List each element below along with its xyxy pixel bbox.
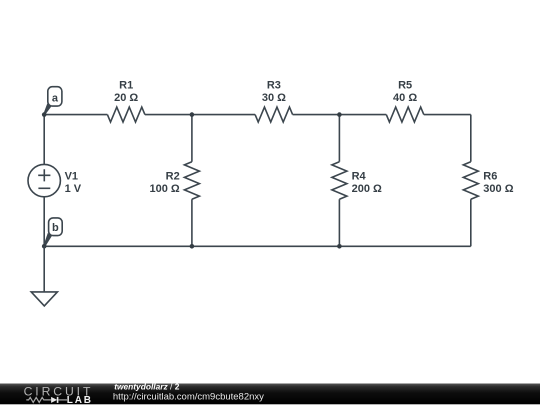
svg-text:R4: R4 <box>352 171 367 183</box>
wire R6 bottom lead <box>470 199 472 246</box>
resistor R6 <box>463 162 513 200</box>
svg-text:R5: R5 <box>398 79 412 91</box>
wire bottom rail <box>44 245 471 247</box>
junction dot node b <box>42 244 47 249</box>
svg-text:R6: R6 <box>483 171 497 183</box>
svg-text:b: b <box>52 222 59 234</box>
node a <box>43 87 62 116</box>
svg-text:R1: R1 <box>119 79 133 91</box>
svg-text:200 Ω: 200 Ω <box>352 183 382 195</box>
resistor R3 <box>255 79 293 122</box>
junction dot node a <box>42 112 47 117</box>
wire left rail bottom: V1 to node b <box>43 197 45 247</box>
wire R4 bottom lead <box>338 199 340 246</box>
svg-text:100 Ω: 100 Ω <box>149 183 179 195</box>
junction dot R3-R4-R5 <box>337 112 342 117</box>
junction dot bottom R4 <box>337 244 342 249</box>
resistor R2 <box>149 162 199 200</box>
footer url <box>113 391 264 402</box>
wire R2 top lead <box>191 115 193 162</box>
CircuitLab logo LAB <box>67 395 93 405</box>
resistor R5 <box>386 79 424 122</box>
CircuitLab logo diode <box>51 397 67 403</box>
wire R4 top lead <box>338 115 340 162</box>
wire R5 to top-right corner <box>424 114 471 116</box>
svg-text:R2: R2 <box>166 171 180 183</box>
voltage source V1 <box>28 164 82 196</box>
node b <box>43 218 62 247</box>
footer title twentydollarz / 2 <box>114 382 180 392</box>
resistor R1 <box>107 79 144 122</box>
svg-text:LAB: LAB <box>67 395 93 405</box>
svg-text:1 V: 1 V <box>65 183 82 195</box>
wire R2 bottom lead <box>191 199 193 246</box>
wire R3 to node between R3/R5 <box>293 114 340 116</box>
svg-text:twentydollarz / 2: twentydollarz / 2 <box>114 382 180 392</box>
wire node to R3 <box>192 114 255 116</box>
wire R6 top lead <box>470 115 472 162</box>
svg-text:30 Ω: 30 Ω <box>262 92 286 104</box>
svg-text:a: a <box>52 92 59 104</box>
resistor R4 <box>332 162 382 200</box>
ground <box>31 246 57 306</box>
wire node to R5 <box>339 114 386 116</box>
svg-text:300 Ω: 300 Ω <box>483 183 513 195</box>
wire R1 to node between R1/R3 <box>145 114 192 116</box>
footer black bar <box>0 384 540 405</box>
CircuitLab logo wordmark CIRCUIT <box>24 384 94 398</box>
CircuitLab logo resistor zigzag <box>26 397 51 402</box>
wire top rail segment a to R1 <box>44 114 107 116</box>
svg-text:20 Ω: 20 Ω <box>114 92 138 104</box>
svg-text:V1: V1 <box>65 171 78 183</box>
svg-text:http://circuitlab.com/cm9cbute: http://circuitlab.com/cm9cbute82nxy <box>113 391 264 402</box>
svg-text:40 Ω: 40 Ω <box>393 92 417 104</box>
wire left rail top: node a to V1 <box>43 115 45 165</box>
svg-text:R3: R3 <box>267 79 281 91</box>
junction dot bottom R2 <box>190 244 195 249</box>
junction dot R1-R2-R3 <box>190 112 195 117</box>
